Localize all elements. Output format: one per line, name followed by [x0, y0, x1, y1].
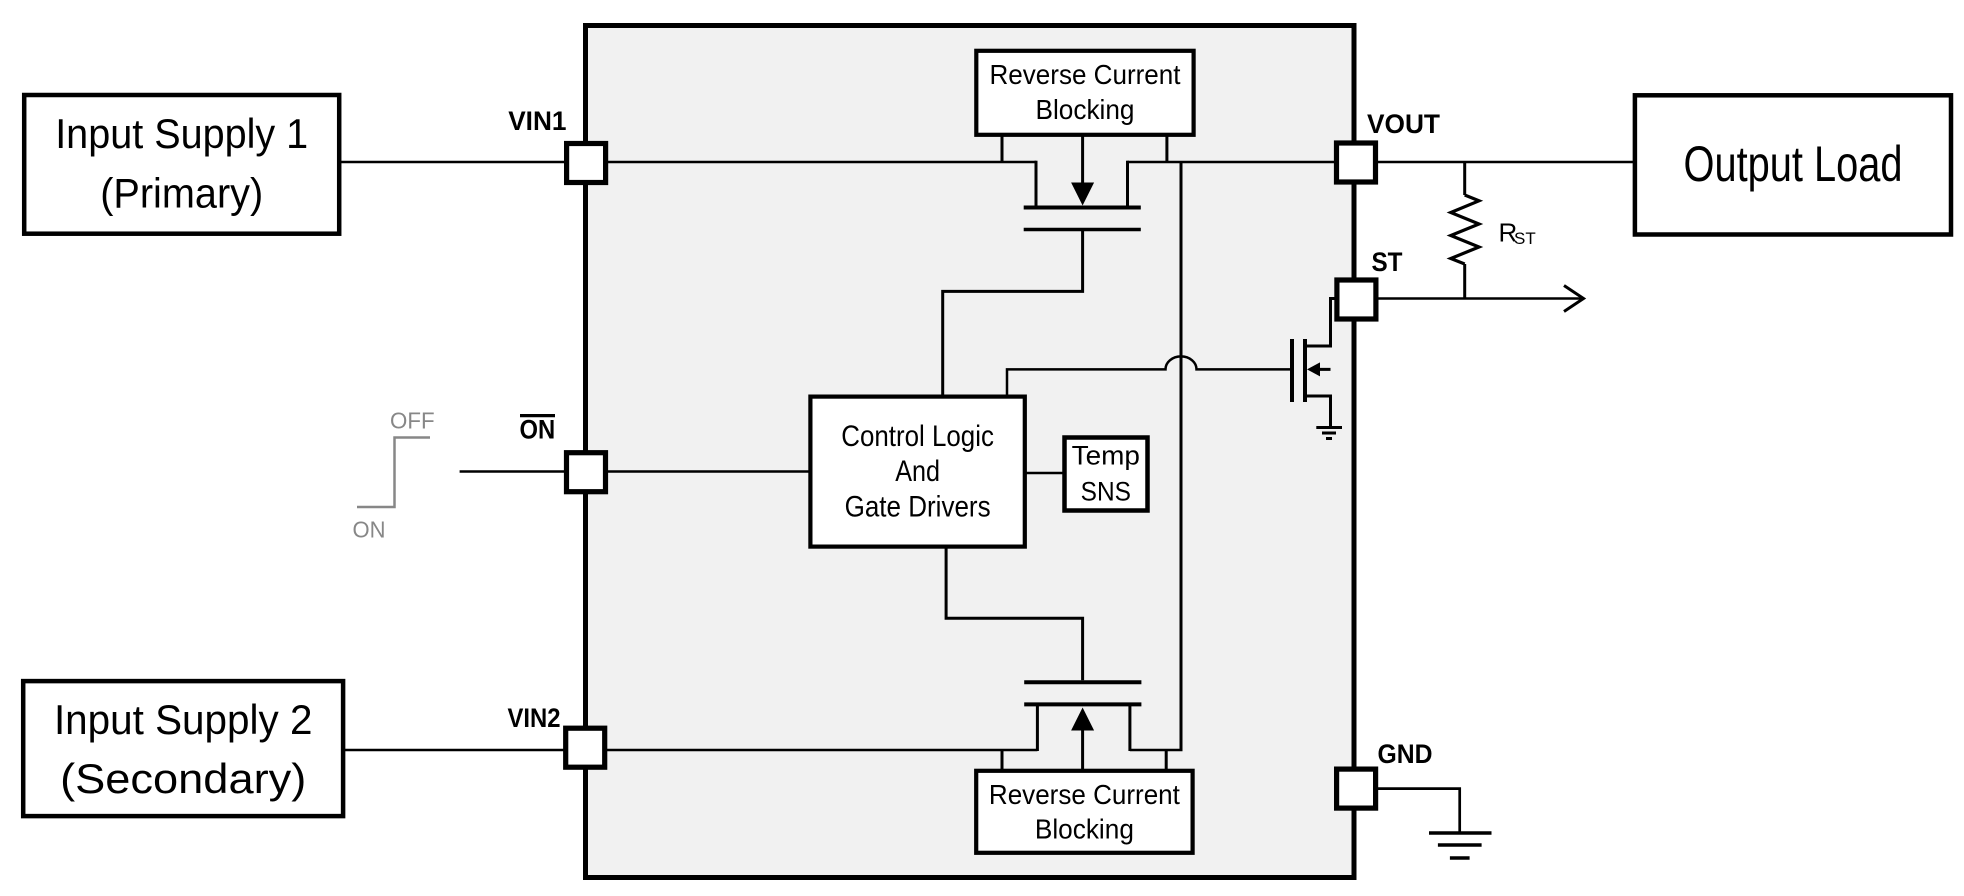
svg-text:And: And — [895, 455, 940, 488]
label ON with overline — [520, 414, 556, 444]
box Reverse Current Blocking bottom — [976, 771, 1192, 853]
wire VIN1 from Input Supply 1 to pin — [339, 161, 567, 164]
wire VOUT to Output Load — [1375, 161, 1635, 164]
ground GND — [1429, 833, 1492, 858]
wire Q1 gate to Control Logic — [943, 230, 1083, 397]
box Reverse Current Blocking top — [976, 51, 1193, 135]
wire ST output with arrow — [1375, 286, 1584, 312]
svg-text:Input Supply 2: Input Supply 2 — [54, 696, 313, 743]
pin GND — [1337, 769, 1376, 808]
svg-text:GND: GND — [1378, 739, 1433, 769]
svg-text:Temp: Temp — [1072, 441, 1140, 471]
wire RCB1 right stub — [1165, 135, 1168, 162]
wire RCB2 left stub — [1001, 750, 1004, 771]
svg-text:Reverse Current: Reverse Current — [990, 59, 1181, 90]
wire ST gate from Control Logic with hop over vertical — [1007, 356, 1290, 396]
svg-text:(Primary): (Primary) — [100, 170, 263, 217]
svg-text:Output Load: Output Load — [1684, 136, 1903, 192]
signal OFF ON step waveform — [353, 408, 435, 543]
wire RCB1 center stub with arrow down — [1081, 135, 1084, 184]
wire GND pin to ground — [1375, 789, 1460, 833]
pin ON — [567, 453, 606, 492]
wire FET2 drain to long vertical — [1130, 749, 1183, 752]
transistor Q3 ST indicator NMOS — [1292, 299, 1338, 427]
box Input Supply 1 — [24, 95, 339, 234]
box Temp SNS — [1065, 438, 1148, 511]
svg-text:VIN2: VIN2 — [508, 703, 561, 733]
wire RCB1 left stub — [1001, 135, 1004, 162]
wire VOUT inside IC — [1128, 161, 1338, 164]
box Control Logic And Gate Drivers U1 — [810, 397, 1024, 547]
wire RCB2 center stub with arrow up — [1081, 728, 1084, 771]
svg-text:Control Logic: Control Logic — [841, 420, 994, 453]
pin VIN1 — [567, 144, 606, 183]
box Output Load — [1635, 95, 1951, 234]
wire long vertical VOUT sense — [1180, 162, 1183, 750]
svg-text:Input Supply 1: Input Supply 1 — [55, 110, 308, 157]
wire ON input — [460, 470, 567, 473]
resistor RST — [1451, 162, 1479, 299]
svg-text:Reverse Current: Reverse Current — [989, 779, 1180, 810]
svg-text:Gate Drivers: Gate Drivers — [845, 491, 991, 524]
svg-text:ST: ST — [1372, 247, 1403, 277]
transistor Q2 bottom pass FET — [1024, 682, 1141, 751]
wire VIN2 from Input Supply 2 to pin — [343, 749, 567, 752]
svg-text:Blocking: Blocking — [1036, 94, 1135, 125]
wire VIN1 inside IC — [604, 161, 1036, 164]
wire RCB2 right stub — [1165, 750, 1168, 771]
svg-text:VOUT: VOUT — [1367, 109, 1440, 139]
svg-text:VIN1: VIN1 — [508, 106, 566, 136]
pin ST — [1337, 280, 1376, 319]
svg-text:ON: ON — [520, 414, 556, 444]
box Input Supply 2 — [23, 681, 343, 816]
label RST — [1499, 218, 1536, 249]
svg-text:OFF: OFF — [390, 408, 435, 434]
wire ON to Control Logic — [605, 470, 810, 473]
svg-text:ON: ON — [353, 517, 386, 543]
svg-text:SNS: SNS — [1081, 477, 1131, 507]
ground for Q3 — [1316, 428, 1342, 439]
IC body — [586, 26, 1355, 878]
pin VOUT — [1337, 143, 1376, 182]
transistor Q1 top pass FET — [1024, 161, 1141, 230]
svg-text:Blocking: Blocking — [1035, 813, 1134, 844]
wire Control Logic to Temp SNS — [1025, 472, 1065, 475]
pin VIN2 — [566, 728, 605, 767]
svg-text:(Secondary): (Secondary) — [60, 755, 306, 802]
wire Control Logic bottom to Q2 gate — [946, 547, 1083, 681]
wire VIN2 inside IC — [604, 749, 1037, 752]
svg-text:ST: ST — [1514, 229, 1536, 248]
